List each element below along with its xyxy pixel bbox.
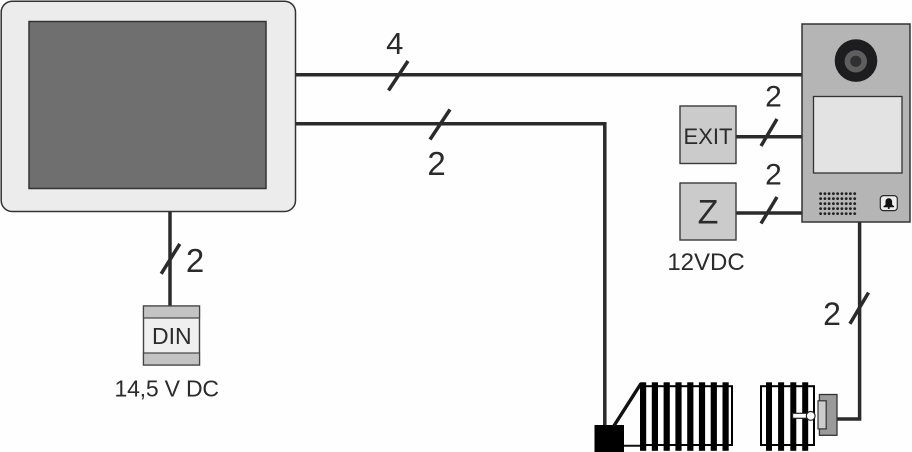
svg-text:2: 2 [765,159,782,192]
svg-text:14,5 V DC: 14,5 V DC [115,376,219,402]
svg-text:4: 4 [386,26,403,61]
svg-text:2: 2 [765,81,782,114]
svg-text:2: 2 [186,242,204,279]
svg-text:2: 2 [427,145,445,182]
svg-text:DIN: DIN [152,323,192,349]
svg-text:12VDC: 12VDC [667,249,744,276]
svg-text:EXIT: EXIT [684,124,733,149]
svg-text:Z: Z [698,194,719,232]
svg-text:2: 2 [823,296,841,332]
